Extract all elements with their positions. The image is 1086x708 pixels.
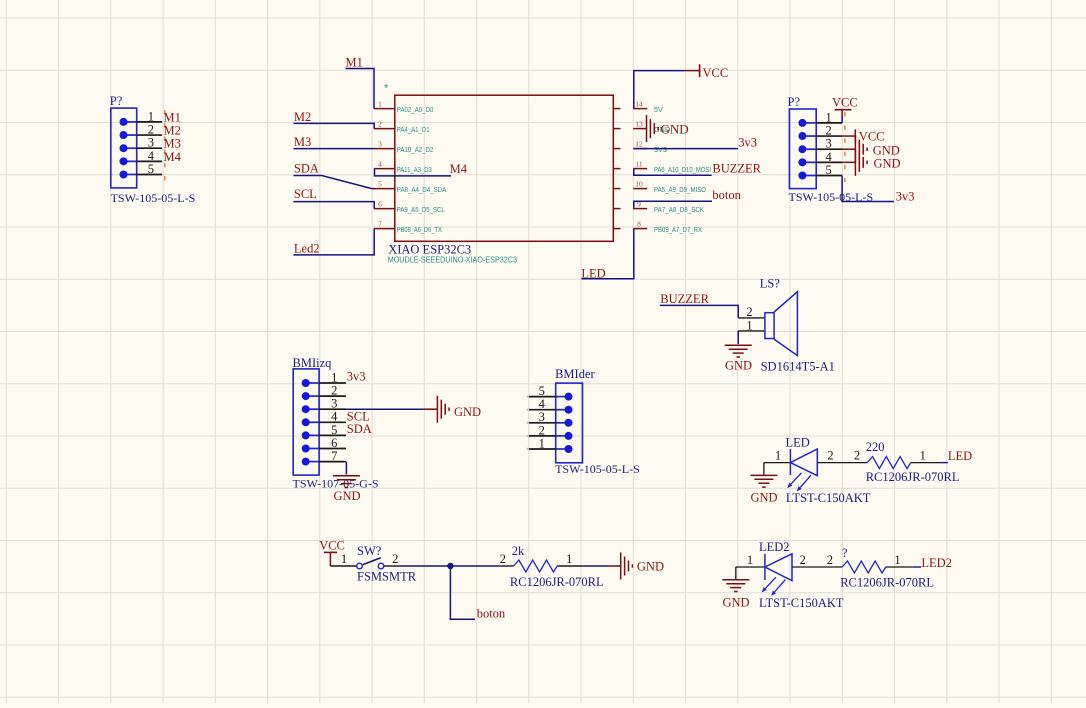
svg-text:1: 1: [341, 552, 347, 566]
U1 pin 12 3V3: [613, 148, 620, 150]
svg-text:TSW-105-05-L-S: TSW-105-05-L-S: [111, 191, 196, 205]
svg-text:14: 14: [635, 99, 643, 108]
wire BMIizq pin3 to GND: [346, 408, 423, 410]
U1 pin 14 5V: [613, 108, 620, 110]
LED2 arrow 2: [771, 580, 785, 596]
wire BUZZER from pin11: [634, 169, 712, 176]
svg-text:1: 1: [920, 449, 926, 463]
svg-text:PA9_A5_D5_SCL: PA9_A5_D5_SCL: [397, 205, 445, 214]
svg-text:?: ?: [842, 546, 848, 560]
svg-text:5: 5: [148, 162, 154, 176]
svg-text:VCC: VCC: [703, 66, 729, 80]
pin 1: [306, 382, 319, 384]
svg-text:2: 2: [825, 123, 831, 137]
svg-text:M4: M4: [450, 162, 468, 176]
U1 pin 5 PA8_A4_D4_SDA: [374, 188, 395, 190]
svg-text:2: 2: [331, 384, 337, 398]
svg-text:3v3: 3v3: [738, 135, 757, 149]
wire M1 to pin1: [346, 69, 375, 109]
svg-text:M1: M1: [164, 110, 181, 124]
svg-text:LED: LED: [948, 449, 972, 463]
svg-text:PA02_A0_D0: PA02_A0_D0: [397, 105, 434, 114]
ground GND (LED1): [750, 463, 777, 505]
svg-text:SW?: SW?: [357, 544, 382, 558]
pin 4: [802, 161, 816, 163]
pin 6: [306, 448, 319, 450]
pin 2: [802, 135, 816, 137]
svg-text:BMIder: BMIder: [555, 367, 595, 381]
svg-text:boton: boton: [712, 188, 741, 202]
resistor R? 220 RC1206JR-070RL: [848, 440, 960, 484]
pin 3: [124, 147, 137, 149]
wire resistor to GND: [584, 565, 608, 567]
LED2 pin2 lead: [792, 566, 818, 568]
pin 4: [556, 409, 569, 411]
svg-text:3: 3: [825, 137, 831, 151]
svg-text:5: 5: [378, 179, 382, 188]
wire Led2 to pin7: [293, 229, 374, 255]
svg-text:5: 5: [331, 423, 337, 437]
svg-text:4: 4: [148, 149, 155, 163]
svg-text:SDA: SDA: [347, 422, 372, 436]
svg-text:1: 1: [331, 370, 337, 384]
wire M4 to pin4: [375, 169, 452, 176]
power port VCC (top): [685, 64, 728, 80]
svg-text:GND: GND: [661, 122, 689, 137]
wire pin14 to VCC: [634, 71, 685, 109]
svg-text:2k: 2k: [512, 544, 525, 558]
svg-text:GND: GND: [873, 143, 900, 157]
svg-text:LED: LED: [581, 267, 605, 281]
svg-text:3: 3: [148, 136, 154, 150]
svg-text:LED2: LED2: [759, 540, 790, 554]
svg-text:FSMSMTR: FSMSMTR: [357, 570, 417, 584]
wire 3v3 from pin5: [842, 176, 894, 202]
svg-text:12: 12: [635, 139, 643, 148]
U1 pin 1 PA02_A0_D0: [374, 108, 395, 110]
svg-text:PA6_A10_D10_MOSI: PA6_A10_D10_MOSI: [654, 165, 711, 174]
pin 5: [556, 396, 569, 398]
svg-text:3v3: 3v3: [347, 370, 366, 384]
ground GND (BMIizq pin7): [333, 476, 361, 503]
svg-text:PB09_A7_D7_RX: PB09_A7_D7_RX: [654, 225, 702, 234]
svg-text:5: 5: [539, 384, 545, 398]
svg-text:1: 1: [148, 109, 154, 123]
svg-text:2: 2: [539, 423, 545, 437]
wire boton from pin9: [634, 201, 712, 208]
wire 3v3 from pin12: [634, 148, 738, 150]
svg-text:PA11_A3_D3: PA11_A3_D3: [397, 165, 432, 174]
LED2 pin1 lead: [736, 566, 765, 568]
speaker LS? SD1614T5-A1: [738, 277, 835, 374]
svg-text:M3: M3: [164, 137, 181, 151]
svg-text:RC1206JR-070RL: RC1206JR-070RL: [840, 576, 934, 590]
svg-text:11: 11: [635, 159, 642, 168]
svg-text:1: 1: [747, 553, 753, 567]
pin 5: [124, 174, 137, 176]
svg-text:7: 7: [378, 219, 382, 228]
svg-text:LTST-C150AKT: LTST-C150AKT: [786, 491, 871, 505]
ground GND at pin13: [647, 115, 689, 142]
svg-text:VCC: VCC: [319, 538, 345, 552]
svg-text:TSW-105-05-L-S: TSW-105-05-L-S: [555, 462, 640, 476]
connector BMIizq (TSW-107-05-G-S): [293, 356, 379, 491]
wire BMIizq pin7 to ground: [345, 462, 347, 475]
svg-text:1: 1: [378, 99, 382, 108]
svg-text:10: 10: [635, 179, 643, 188]
svg-text:LED2: LED2: [921, 556, 952, 570]
svg-text:3: 3: [539, 410, 545, 424]
wire SDA to pin5: [293, 176, 374, 189]
svg-text:2: 2: [500, 552, 506, 566]
resistor R? "?" RC1206JR-070RL: [818, 546, 934, 590]
svg-text:2: 2: [148, 122, 154, 136]
LED diode symbol: [790, 449, 817, 476]
svg-text:3v3: 3v3: [896, 190, 915, 204]
junction node boton: [447, 563, 453, 569]
svg-text:BUZZER: BUZZER: [660, 292, 709, 306]
svg-text:GND: GND: [722, 596, 749, 610]
svg-text:RC1206JR-070RL: RC1206JR-070RL: [866, 470, 960, 484]
no-ERC markers right connector: [844, 112, 846, 182]
pin 1: [124, 121, 137, 123]
svg-text:SDA: SDA: [294, 162, 319, 176]
svg-text:RC1206JR-070RL: RC1206JR-070RL: [510, 575, 604, 589]
connector P? (left, TSW-105-05-L-S): [110, 94, 195, 205]
connector P? (right, TSW-105-05-L-S): [788, 95, 874, 204]
svg-text:2: 2: [827, 449, 833, 463]
svg-text:MOUDLE-SEEEDUINO-XIAO-ESP32C3: MOUDLE-SEEEDUINO-XIAO-ESP32C3: [388, 255, 518, 265]
ground GND at pin3: [842, 136, 900, 163]
svg-text:M2: M2: [164, 123, 181, 137]
svg-text:LTST-C150AKT: LTST-C150AKT: [759, 596, 844, 610]
svg-text:GND: GND: [454, 405, 481, 419]
pin 1: [556, 448, 569, 450]
pin 3: [802, 148, 816, 150]
svg-text:PA7_A8_D8_SCK: PA7_A8_D8_SCK: [654, 205, 704, 214]
connector BMIder (TSW-105-05-L-S): [527, 367, 640, 476]
pin 1: [802, 122, 816, 124]
svg-text:2: 2: [378, 119, 382, 128]
svg-text:M4: M4: [164, 150, 182, 164]
U1 pin 6 PA9_A5_D5_SCL: [374, 208, 395, 210]
LED2 diode symbol: [765, 554, 792, 581]
svg-text:13: 13: [635, 119, 643, 128]
svg-text:P?: P?: [110, 94, 123, 108]
wire SCL to pin6: [293, 202, 374, 209]
svg-text:4: 4: [331, 410, 338, 424]
svg-text:5: 5: [825, 163, 831, 177]
svg-text:BMIizq: BMIizq: [293, 356, 333, 370]
resistor R? 2k RC1206JR-070RL: [500, 544, 604, 589]
pin 5: [306, 434, 319, 436]
svg-text:VCC: VCC: [832, 95, 858, 109]
svg-text:4: 4: [539, 397, 546, 411]
svg-text:1: 1: [894, 553, 900, 567]
pin 2: [124, 134, 137, 136]
LED arrow 2: [797, 475, 811, 491]
svg-text:GND: GND: [750, 491, 777, 505]
wire switch to resistor: [384, 565, 398, 567]
svg-text:5V: 5V: [654, 105, 663, 114]
svg-text:1: 1: [539, 436, 545, 450]
ground GND at pin4: [842, 149, 900, 176]
wire M2 to pin2: [293, 123, 374, 128]
svg-text:6: 6: [378, 199, 382, 208]
svg-text:1: 1: [746, 318, 752, 332]
LED arrow 1: [787, 473, 801, 488]
svg-text:VCC: VCC: [859, 130, 885, 144]
pin 5: [802, 175, 816, 177]
svg-text:BUZZER: BUZZER: [712, 161, 761, 175]
U1 pin 10 PA5_A9_D9_MISO: [613, 188, 620, 190]
ground GND (BMIizq pin3): [423, 396, 481, 423]
power port VCC above pin1: [832, 95, 858, 123]
U1 pin 3 PA10_A2_D2: [374, 148, 395, 150]
svg-text:*: *: [384, 83, 389, 95]
svg-text:GND: GND: [333, 489, 360, 503]
svg-text:8: 8: [637, 219, 641, 228]
svg-text:PA10_A2_D2: PA10_A2_D2: [397, 145, 434, 154]
U1 pin 8 PB09_A7_D7_RX: [613, 228, 620, 230]
svg-text:SD1614T5-A1: SD1614T5-A1: [761, 359, 835, 373]
svg-text:M2: M2: [294, 110, 311, 124]
power port VCC (switch): [319, 538, 345, 566]
switch SW? FSMSMTR: [357, 544, 417, 584]
U1 pin 2 PA4_A1_D1: [374, 128, 395, 130]
no-ERC markers left connector: [164, 110, 166, 181]
LED pin2 lead: [817, 462, 847, 464]
wire M3 to pin3: [293, 148, 374, 150]
svg-text:boton: boton: [477, 606, 506, 620]
svg-text:GND: GND: [725, 359, 752, 373]
svg-text:SCL: SCL: [294, 187, 317, 201]
svg-text:PA4_A1_D1: PA4_A1_D1: [397, 125, 430, 134]
svg-text:3: 3: [378, 139, 382, 148]
U1 pin 9 PA7_A8_D8_SCK: [613, 208, 620, 210]
svg-text:7: 7: [331, 449, 337, 463]
pin 2: [306, 395, 319, 397]
svg-text:P?: P?: [788, 95, 801, 109]
svg-text:1: 1: [775, 449, 781, 463]
power port VCC at pin2: [842, 129, 884, 143]
svg-text:2: 2: [854, 449, 860, 463]
wire BUZZER to speaker pin2: [660, 305, 738, 318]
svg-text:220: 220: [866, 440, 885, 454]
svg-text:GND: GND: [874, 156, 901, 170]
svg-text:GND: GND: [637, 560, 664, 574]
wire junction to boton label: [450, 566, 475, 619]
ground GND (speaker): [725, 345, 752, 372]
op-amp/module U1 XIAO ESP32C3 body: [395, 95, 614, 241]
svg-text:4: 4: [378, 159, 382, 168]
U1 pin 7 PB08_A6_D6_TX: [374, 228, 395, 230]
svg-text:Led2: Led2: [294, 241, 320, 255]
svg-text:M3: M3: [294, 135, 311, 149]
wire resistor to LED2 label: [913, 566, 921, 568]
svg-text:LED: LED: [786, 435, 810, 449]
svg-text:PA8_A4_D4_SDA: PA8_A4_D4_SDA: [397, 185, 447, 194]
wire speaker pin1 to ground: [737, 331, 739, 344]
LED2 arrow 1: [762, 577, 776, 592]
U1 pin 4 PA11_A3_D3: [374, 168, 395, 170]
LED D? LTST-C150AKT pin1 lead: [764, 462, 791, 464]
U1 pin 11 PA6_A10_D10_MOSI: [613, 168, 620, 170]
svg-text:2: 2: [746, 305, 752, 319]
svg-text:PA5_A9_D9_MISO: PA5_A9_D9_MISO: [654, 185, 706, 194]
pin 4: [306, 421, 319, 423]
svg-text:2: 2: [392, 552, 398, 566]
svg-text:2: 2: [827, 553, 833, 567]
pin 3: [556, 422, 569, 424]
pin 2: [556, 435, 569, 437]
svg-text:1: 1: [825, 110, 831, 124]
svg-text:M1: M1: [346, 56, 363, 70]
pin 7: [306, 461, 319, 463]
U1 pin 13 GND: [613, 128, 620, 130]
wire VCC to switch: [330, 565, 356, 567]
pin 3: [306, 408, 319, 410]
svg-text:3: 3: [331, 397, 337, 411]
svg-text:1: 1: [566, 552, 572, 566]
ground GND (switch row): [608, 553, 664, 580]
wire LED from pin8: [581, 229, 633, 279]
svg-text:PB08_A6_D6_TX: PB08_A6_D6_TX: [397, 225, 442, 234]
svg-text:6: 6: [331, 436, 337, 450]
svg-text:LS?: LS?: [760, 277, 781, 291]
pin 4: [124, 160, 137, 162]
svg-text:2: 2: [800, 553, 806, 567]
ground GND (LED2): [722, 567, 749, 610]
wire resistor to LED label: [941, 462, 948, 464]
svg-text:4: 4: [825, 150, 832, 164]
